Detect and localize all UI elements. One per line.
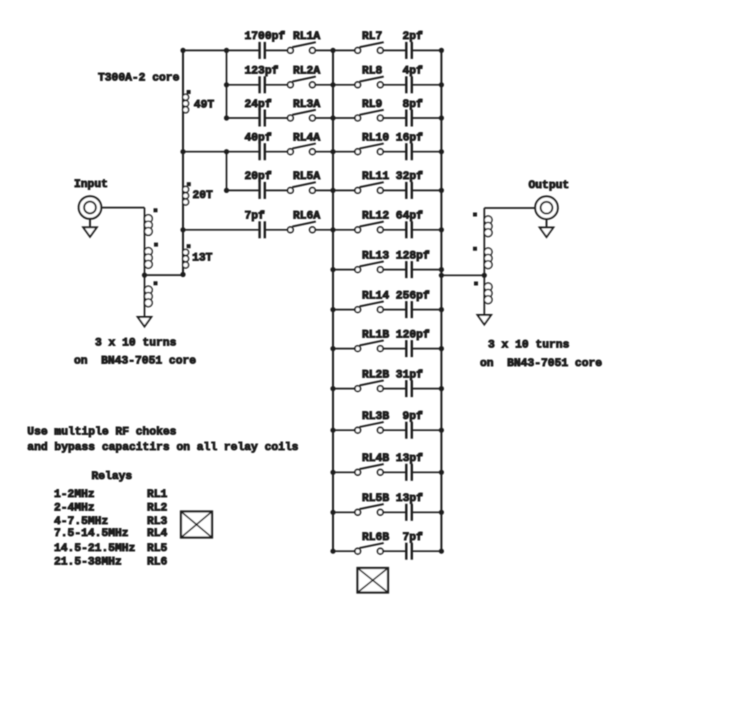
svg-text:128pf: 128pf [396, 250, 430, 262]
svg-text:RL6A: RL6A [293, 211, 320, 223]
svg-text:16pf: 16pf [396, 133, 423, 145]
svg-text:RL11: RL11 [362, 171, 389, 183]
svg-text:RL4: RL4 [147, 528, 168, 540]
svg-text:7pf: 7pf [245, 211, 266, 223]
svg-text:RL13: RL13 [362, 250, 389, 262]
svg-text:21.5-38MHz: 21.5-38MHz [54, 557, 122, 569]
svg-text:RL14: RL14 [362, 290, 389, 302]
svg-text:and bypass capacitirs on all r: and bypass capacitirs on all relay coils [27, 442, 298, 454]
svg-text:on BN43-7051 core: on BN43-7051 core [74, 356, 196, 368]
svg-text:49T: 49T [194, 100, 215, 112]
svg-text:Output: Output [529, 180, 570, 192]
svg-text:RL2: RL2 [147, 503, 168, 515]
svg-text:13pf: 13pf [396, 493, 423, 505]
svg-text:RL5: RL5 [147, 543, 168, 555]
svg-text:9pf: 9pf [403, 411, 424, 423]
svg-text:RL8: RL8 [362, 66, 383, 78]
svg-text:123pf: 123pf [245, 66, 279, 78]
svg-text:256pf: 256pf [396, 290, 430, 302]
svg-text:2pf: 2pf [403, 31, 424, 43]
svg-text:20T: 20T [193, 190, 214, 202]
svg-text:RL1A: RL1A [293, 31, 320, 43]
svg-text:7pf: 7pf [403, 532, 424, 544]
svg-text:RL1B: RL1B [362, 329, 389, 341]
svg-text:1-2MHz: 1-2MHz [54, 489, 95, 501]
svg-text:RL4B: RL4B [362, 453, 389, 465]
svg-text:120pf: 120pf [396, 329, 430, 341]
svg-text:3 x 10 turns: 3 x 10 turns [488, 340, 570, 352]
svg-text:RL9: RL9 [362, 99, 383, 111]
svg-text:RL5B: RL5B [362, 493, 389, 505]
svg-text:31pf: 31pf [396, 369, 423, 381]
svg-text:32pf: 32pf [396, 171, 423, 183]
svg-text:RL3A: RL3A [293, 99, 320, 111]
svg-text:RL2A: RL2A [293, 66, 320, 78]
svg-text:on BN43-7051 core: on BN43-7051 core [480, 358, 602, 370]
svg-text:3 x 10 turns: 3 x 10 turns [95, 338, 177, 350]
svg-text:13pf: 13pf [396, 453, 423, 465]
svg-text:RL3B: RL3B [362, 411, 389, 423]
svg-text:RL7: RL7 [362, 31, 383, 43]
svg-text:RL10: RL10 [362, 133, 389, 145]
svg-text:RL6B: RL6B [362, 532, 389, 544]
svg-text:RL1: RL1 [147, 489, 168, 501]
svg-text:RL5A: RL5A [293, 171, 320, 183]
svg-text:24pf: 24pf [245, 99, 272, 111]
svg-text:20pf: 20pf [245, 171, 272, 183]
svg-text:RL2B: RL2B [362, 369, 389, 381]
svg-text:Input: Input [74, 179, 108, 191]
svg-text:40pf: 40pf [245, 133, 272, 145]
svg-text:7.5-14.5MHz: 7.5-14.5MHz [54, 528, 129, 540]
svg-text:13T: 13T [192, 253, 213, 265]
svg-text:Relays: Relays [92, 471, 133, 483]
svg-text:2-4MHz: 2-4MHz [54, 503, 95, 515]
svg-text:4-7.5MHz: 4-7.5MHz [54, 516, 108, 528]
svg-text:RL6: RL6 [147, 557, 168, 569]
svg-text:RL12: RL12 [362, 211, 389, 223]
svg-text:Use multiple RF chokes: Use multiple RF chokes [27, 427, 176, 439]
svg-text:64pf: 64pf [396, 211, 423, 223]
svg-text:8pf: 8pf [403, 99, 424, 111]
svg-text:4pf: 4pf [403, 66, 424, 78]
svg-text:T300A-2 core: T300A-2 core [98, 73, 180, 85]
svg-text:1700pf: 1700pf [245, 31, 286, 43]
svg-text:14.5-21.5MHz: 14.5-21.5MHz [54, 543, 135, 555]
svg-text:RL4A: RL4A [293, 133, 320, 145]
svg-text:RL3: RL3 [147, 516, 168, 528]
